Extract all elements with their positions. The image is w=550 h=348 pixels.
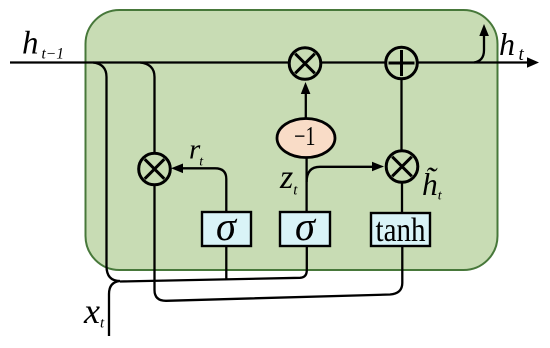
wire: reset multiplier output down and right to tanh: [155, 185, 403, 301]
arrowhead: into reset multiplier: [171, 164, 183, 174]
multiplier circle (top, 1-z gate): [289, 48, 321, 80]
sigma box 1 (reset gate): [202, 203, 251, 249]
svg-text:ht−1: ht−1: [22, 26, 64, 63]
wire: branch from h line down to concat point: [93, 63, 120, 282]
GRU cell body (green rounded rectangle): [86, 10, 498, 270]
wire: adder down to htilde multiplier: [400, 80, 402, 150]
wire: sigma1 down leg joining line A: [225, 247, 227, 281]
wire: main h line from h_{t-1} to h_t: [10, 61, 530, 63]
multiplier circle (right, htilde gate): [386, 151, 418, 183]
arrowhead: into top multiplier: [301, 82, 311, 94]
wire: x_t input rising to concat point: [109, 281, 120, 336]
arrowhead: h_t output right: [527, 57, 539, 67]
svg-text:σ: σ: [216, 203, 238, 249]
adder circle: [386, 47, 418, 79]
wire: branch from h line down to reset multiplier: [140, 63, 155, 154]
svg-text:ht: ht: [499, 26, 525, 65]
multiplier circle (left, reset gate): [139, 153, 171, 185]
wire: branch curving up to h_t top output: [474, 32, 484, 63]
svg-text:−1: −1: [294, 121, 316, 151]
wire: htilde multiplier down to tanh: [401, 183, 403, 213]
sigma box 2 (update gate): [280, 203, 330, 249]
arrowhead: into htilde multiplier: [372, 162, 384, 172]
wire: z_t branch right into htilde multiplier: [307, 167, 378, 182]
svg-text:xt: xt: [83, 291, 105, 332]
svg-text:σ: σ: [295, 203, 317, 249]
wire: z_t from sigma2 up to -1 oval: [305, 156, 307, 212]
arrowhead: h_t up output: [479, 24, 489, 36]
wire: -1 oval up to top multiplier: [305, 90, 307, 118]
-1 oval node: [277, 119, 335, 158]
wire: r_t from sigma1 up and left into reset multiplier: [176, 168, 226, 212]
svg-text:tanh: tanh: [376, 212, 426, 249]
wire: concat line A to sigma gates: [120, 247, 307, 282]
tanh box: [371, 212, 430, 249]
